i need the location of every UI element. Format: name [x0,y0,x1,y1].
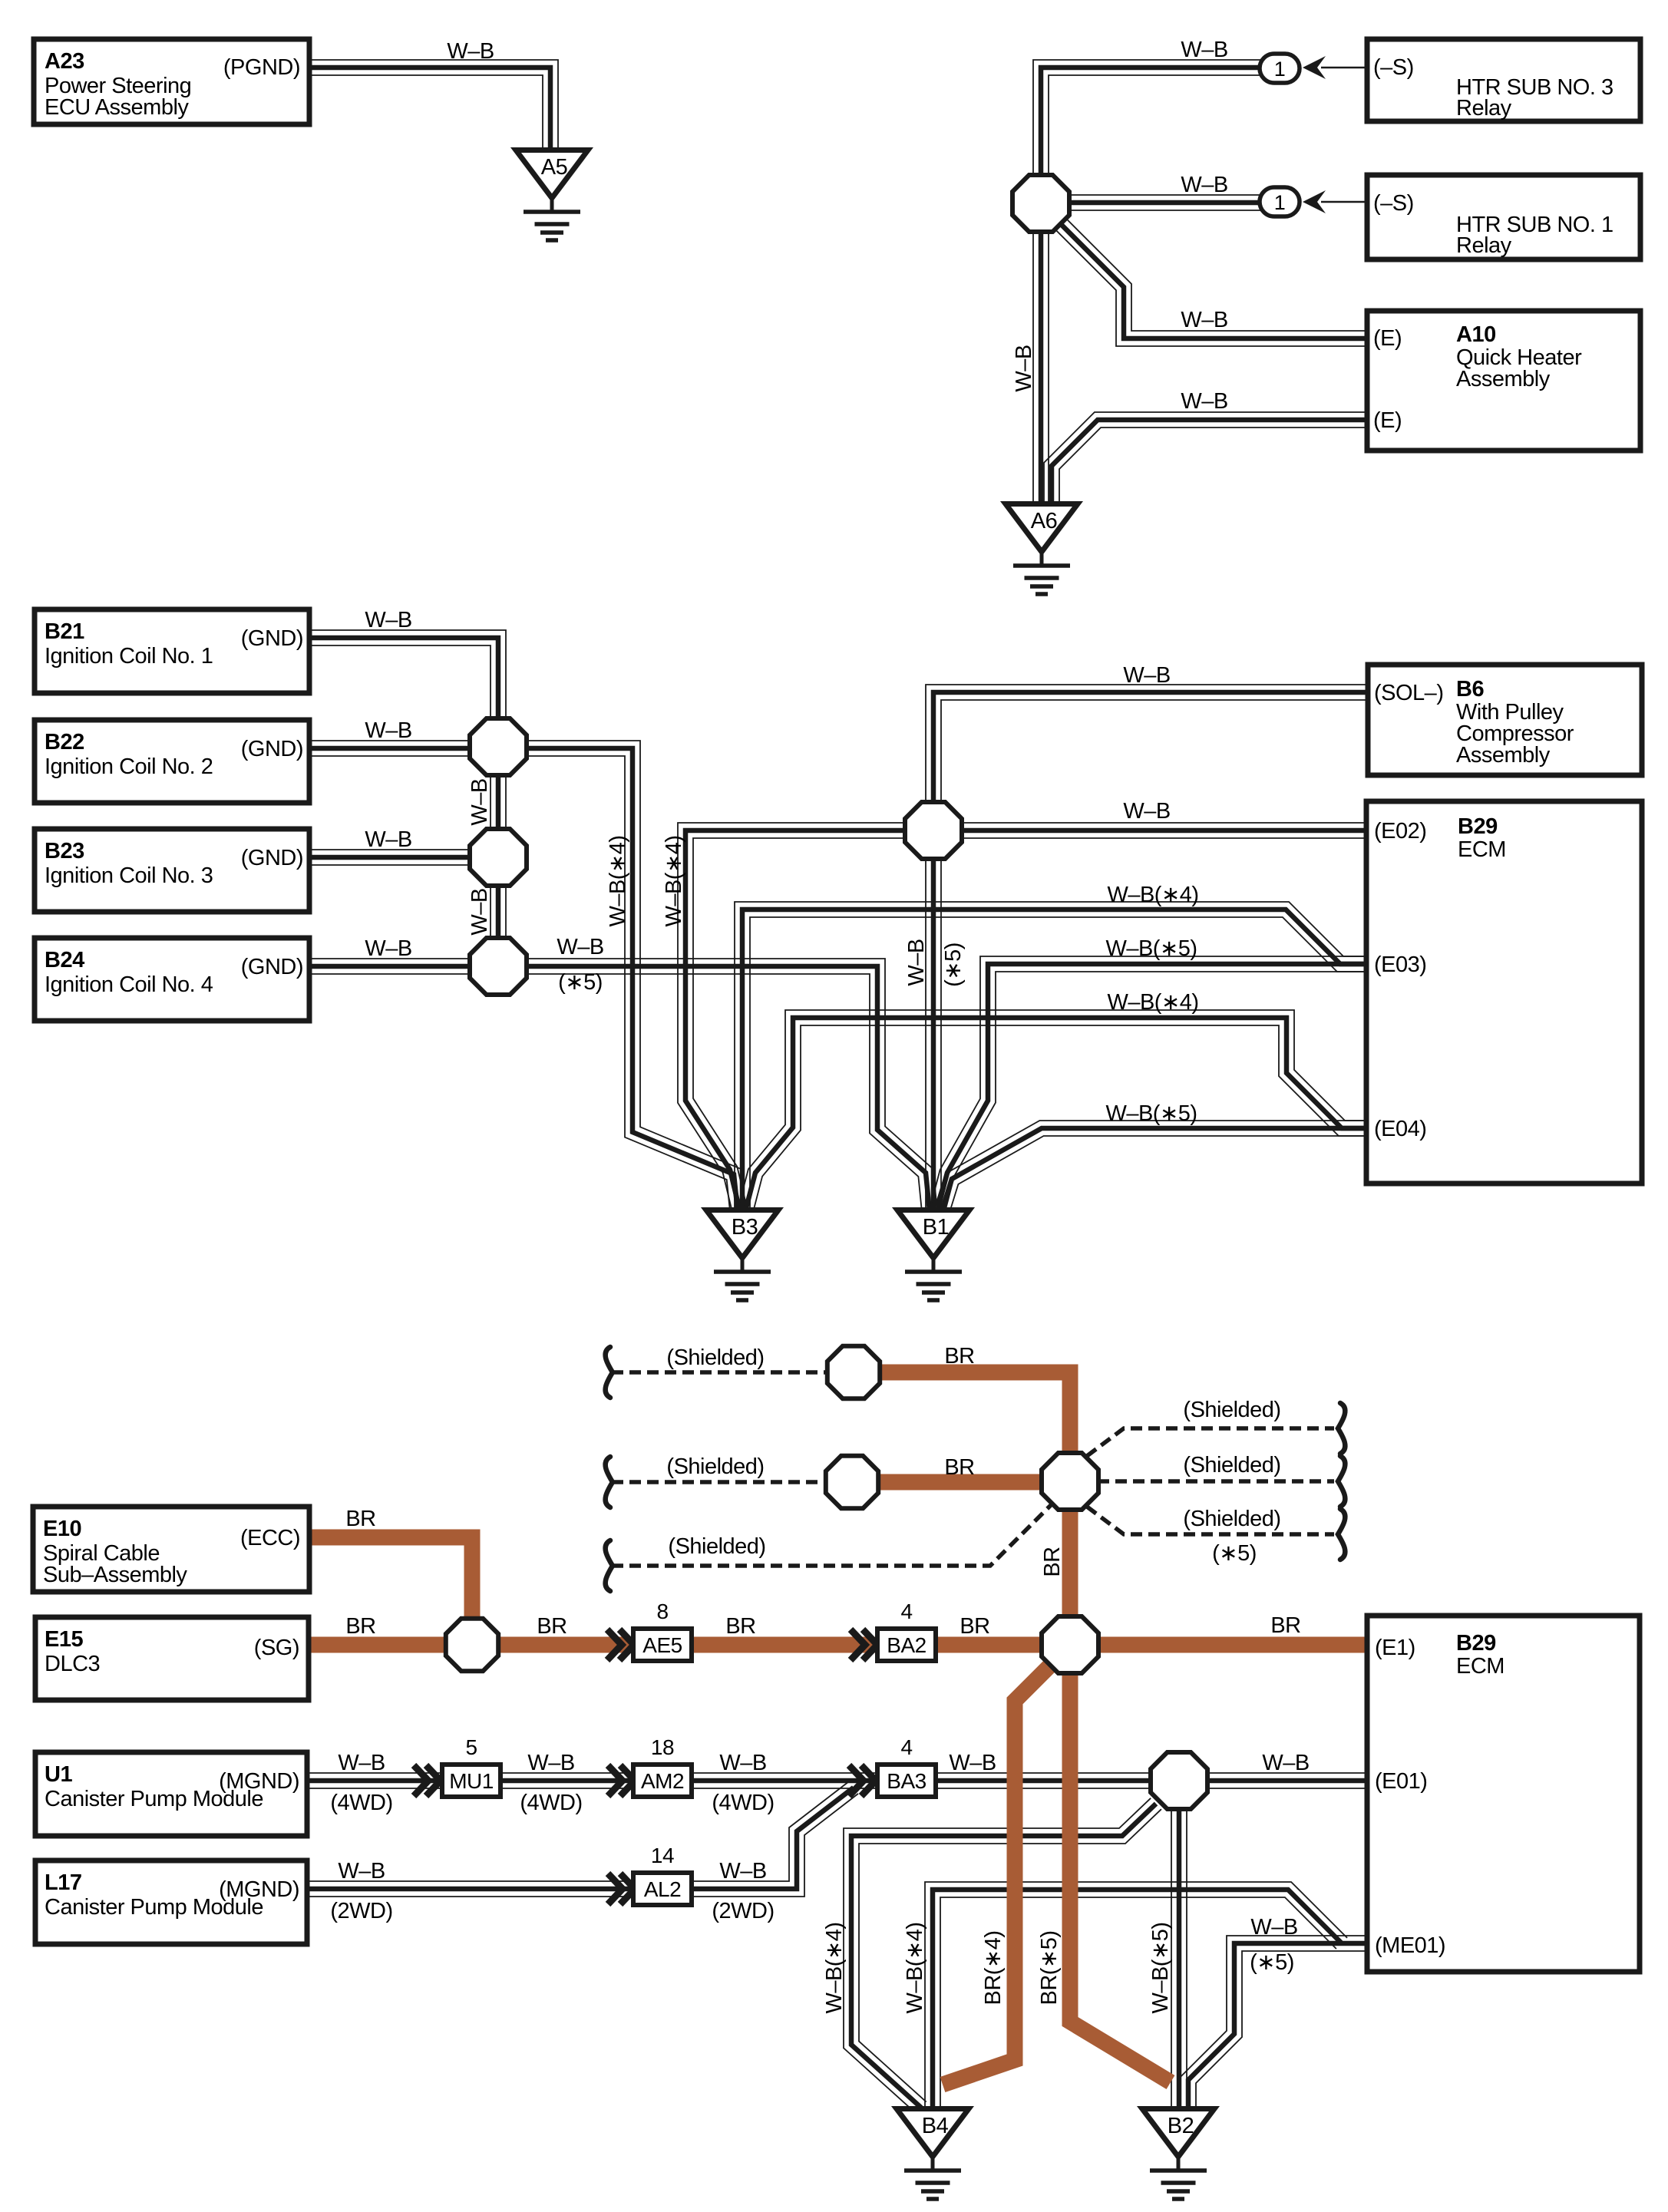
component HTR SUB NO.1 Relay [1367,175,1640,259]
wire W-B U1 MGND to junction J5 via MU1 AM2 BA3 [307,1773,1151,1788]
svg-text:W–B(∗5): W–B(∗5) [1105,1101,1197,1126]
wire W-B junction to A10 terminal E upper [1053,216,1370,346]
label BR row1 [944,1344,974,1368]
connector arrow HTR SUB NO.1 [1303,190,1367,213]
wire BR shield junction S1 to trunk [881,1372,1070,1454]
wire W-B B22 GND to junction J1 [309,741,473,756]
svg-text:W–B: W–B [365,827,411,852]
svg-text:(E): (E) [1373,408,1402,433]
junction octagon S1 shielded [827,1346,880,1398]
svg-text:W–B: W–B [1181,308,1227,332]
wire W-B B21 GND to junction J1 [309,630,506,721]
wire W-B(*5) ground B1 to ECM E03 [930,956,1370,1213]
svg-text:W–B: W–B [1181,173,1227,197]
junction octagon J1 [470,718,527,775]
svg-text:BR(∗5): BR(∗5) [1037,1930,1062,2005]
svg-text:(4WD): (4WD) [712,1791,774,1815]
svg-text:Sub–Assembly: Sub–Assembly [43,1563,187,1587]
label W-B AL2 wire [719,1859,766,1884]
svg-text:B24: B24 [45,948,84,972]
component B6 With Pulley Compressor Assembly [1368,665,1642,775]
connector chevron to BA2 [851,1629,877,1660]
wire BR shield junction S2 to junction J8 [879,1474,1044,1491]
wire W-B junction J2 to junction J3 [490,884,506,939]
svg-text:Canister Pump Module: Canister Pump Module [45,1895,263,1920]
component E10 Spiral Cable Sub-Assembly [33,1507,309,1592]
label BR post-J6 wire [537,1614,566,1639]
svg-text:BR: BR [725,1614,755,1639]
svg-text:5: 5 [465,1735,477,1759]
svg-text:Assembly: Assembly [1456,367,1551,391]
svg-text:(4WD): (4WD) [520,1791,582,1815]
svg-text:B29: B29 [1456,1631,1496,1656]
svg-text:W–B: W–B [719,1751,766,1775]
svg-text:A23: A23 [45,49,84,74]
label W-B relay3 wire [1181,38,1227,62]
svg-text:(Shielded): (Shielded) [1183,1507,1280,1531]
label (2WD) L17 wire [330,1899,392,1923]
shield brace left row 2 [606,1457,613,1507]
svg-text:(Shielded): (Shielded) [668,1534,765,1559]
svg-text:8: 8 [656,1600,668,1623]
svg-text:W–B: W–B [1250,1915,1297,1940]
svg-text:ECU Assembly: ECU Assembly [45,95,189,120]
ground B2 [1142,2109,1214,2200]
label W-B(*4) E04 wire [1107,990,1198,1015]
svg-text:W–B: W–B [949,1751,996,1775]
wire W-B junction J4 to ground B1 [926,857,941,1211]
svg-text:B4: B4 [922,2114,949,2138]
wire W-B(*4) junction J1 to ground B3 [524,741,745,1212]
component A23 Power Steering ECU Assembly [34,39,309,124]
svg-text:BR: BR [960,1614,989,1639]
svg-text:AL2: AL2 [644,1877,681,1901]
ground A5 [516,150,588,241]
svg-text:W–B: W–B [365,936,411,961]
svg-text:(–S): (–S) [1373,55,1414,80]
component B21 Ignition Coil No.1 [35,609,309,693]
junction octagon S2 shielded [826,1456,878,1508]
wire W-B B23 GND to junction J2 [309,850,473,865]
svg-text:A5: A5 [541,155,567,180]
svg-text:MU1: MU1 [449,1769,494,1793]
svg-text:B3: B3 [732,1215,758,1240]
svg-text:W–B: W–B [338,1751,385,1775]
svg-text:BA2: BA2 [887,1633,926,1657]
svg-text:(–S): (–S) [1373,191,1414,216]
svg-text:(E03): (E03) [1374,952,1426,977]
svg-text:(∗5): (∗5) [558,970,603,995]
svg-text:W–B: W–B [467,888,492,935]
wire W-B L17 MGND via AL2 merging at BA3 [307,1781,858,1897]
wire W-B A23 PGND to ground A5 [309,60,558,150]
svg-text:Ignition Coil No. 3: Ignition Coil No. 3 [45,863,213,888]
label W-B B23 wire [365,827,411,852]
connector MU1 pin 5 [442,1735,500,1797]
wire W-B B24 GND to junction J3 [309,959,473,974]
svg-text:L17: L17 [45,1870,81,1895]
label W-B A10 upper wire [1181,308,1227,332]
wire W-B(*4) ground B3 to ECM E03 [735,902,1370,1211]
label (4WD) U1 wire [330,1791,392,1815]
svg-text:W–B(∗4): W–B(∗4) [606,835,630,926]
svg-text:(E01): (E01) [1375,1769,1427,1794]
svg-text:U1: U1 [45,1762,72,1787]
connector pin 1 HTR SUB NO.3 [1260,54,1300,83]
label W-B(*5) E04 wire [1105,1101,1197,1126]
svg-text:14: 14 [651,1844,674,1867]
label (Shielded) rowC right [1183,1507,1280,1531]
wire W-B junction J5 to ECM E01 [1207,1773,1370,1788]
wire BR(*5) junction J7 to ground B2 [1070,1671,1171,2082]
svg-text:(∗5): (∗5) [1250,1950,1294,1975]
svg-text:W–B: W–B [527,1751,574,1775]
label BR(*5) vertical [1037,1930,1062,2005]
junction octagon J5 [1151,1752,1207,1809]
svg-text:W–B(∗5): W–B(∗5) [1105,936,1197,961]
component B29 ECM upper [1366,801,1642,1184]
svg-text:W–B: W–B [1123,799,1170,824]
svg-text:W–B(∗4): W–B(∗4) [903,1922,927,2013]
ground A6 [1006,504,1078,595]
label W-B(*4) vertical x824 [606,835,630,926]
junction octagon J8 shield trunk [1042,1453,1098,1510]
label (2WD) AL2 wire [712,1899,774,1923]
svg-text:W–B: W–B [1181,38,1227,62]
label W-B A23 wire [447,39,494,64]
svg-text:Ignition Coil No. 4: Ignition Coil No. 4 [45,972,213,997]
svg-text:W–B(∗4): W–B(∗4) [1107,990,1198,1015]
label W-B L17 wire [338,1859,385,1884]
label (*5) ME01 wire [1250,1950,1294,1975]
svg-text:(4WD): (4WD) [330,1791,392,1815]
svg-text:(GND): (GND) [241,626,303,651]
wire W-B(*4) junction J4 to ground B3 [678,823,907,1213]
svg-text:BR: BR [345,1614,375,1639]
svg-text:Ignition Coil No. 1: Ignition Coil No. 1 [45,644,213,669]
svg-text:(PGND): (PGND) [223,55,300,80]
svg-text:(SOL–): (SOL–) [1374,681,1443,705]
label W-B(*5) vertical x1536 [1148,1922,1173,2013]
label W-B B21 wire [365,608,411,632]
junction octagon J6 [446,1619,498,1671]
svg-text:BR: BR [1270,1613,1300,1638]
junction octagon J2 [470,829,527,886]
label W-B vertical A6 trunk [1012,345,1036,391]
junction octagon J3 [470,938,527,995]
svg-text:B23: B23 [45,839,84,863]
label W-B(*4) vertical x1215 [903,1922,927,2013]
svg-text:E15: E15 [45,1627,83,1652]
ground B3 [706,1210,778,1301]
wire W-B(*5) ground B1 to ECM E04 [934,1121,1370,1213]
wire W-B junction down to ground A6 [1033,230,1049,505]
component L17 Canister Pump Module [35,1860,307,1944]
wire BR junction J8 to junction J7 [1062,1508,1078,1619]
svg-text:W–B(∗5): W–B(∗5) [1148,1922,1173,2013]
connector AM2 pin 18 [633,1735,692,1797]
svg-text:(Shielded): (Shielded) [1183,1398,1280,1422]
connector BA3 pin 4 [877,1735,936,1797]
connector chevron to MU1 [414,1765,441,1796]
connector chevron to BA3 [849,1765,876,1796]
svg-text:Assembly: Assembly [1456,743,1551,768]
wire shielded dashed right row A [1087,1428,1334,1456]
wire BR junction J6 to ECM E1 via AE5 BA2 J7 [497,1637,1370,1653]
svg-text:W–B(∗4): W–B(∗4) [1107,883,1198,907]
wire W-B junction J4 to B6 SOL- [926,685,1370,804]
label BR row2 [944,1455,974,1480]
label W-B A10 lower wire [1181,389,1227,414]
label (Shielded) row3 left [668,1534,765,1559]
svg-text:W–B(∗4): W–B(∗4) [662,835,686,926]
label W-B E01 wire [1262,1751,1309,1775]
connector chevron to AL2 [608,1874,635,1904]
svg-text:(GND): (GND) [241,737,303,761]
svg-text:(2WD): (2WD) [330,1899,392,1923]
svg-text:ECM: ECM [1458,837,1506,862]
shield brace right row C [1338,1509,1345,1560]
svg-text:(SG): (SG) [254,1636,299,1660]
svg-text:(E1): (E1) [1375,1636,1415,1660]
svg-text:W–B: W–B [904,939,929,985]
label W-B U1 wire [338,1751,385,1775]
wire W-B(*4) ME01 branch to ground B4 [925,1882,1347,2108]
svg-text:W–B: W–B [1123,663,1170,688]
wire BR E10 ECC to junction J6 [309,1537,472,1619]
label (*5) J3 right wire [558,970,603,995]
component B23 Ignition Coil No.3 [35,829,309,912]
svg-text:(GND): (GND) [241,846,303,870]
component A10 Quick Heater Assembly [1367,311,1640,451]
svg-text:B22: B22 [45,730,84,754]
wire W-B junction J4 to ECM E02 [960,823,1370,838]
shield brace left row 3 [606,1540,613,1591]
connector chevron to AM2 [608,1765,635,1796]
wire W-B(*5) ECM ME01 to ground B2 [1181,1936,1370,2108]
label W-B E02 wire [1123,799,1170,824]
svg-text:Relay: Relay [1456,233,1512,258]
ground B1 [897,1210,969,1301]
svg-text:W–B: W–B [1012,345,1036,391]
svg-text:A6: A6 [1031,509,1057,533]
label W-B B24 wire [365,936,411,961]
label W-B B6 wire [1123,663,1170,688]
svg-text:(Shielded): (Shielded) [1183,1453,1280,1477]
label W-B AM2-BA3 wire [719,1751,766,1775]
svg-text:(E04): (E04) [1374,1117,1426,1141]
label W-B BA3-J5 wire [949,1751,996,1775]
label W-B(*4) vertical x1109 [822,1922,847,2013]
wire W-B A10 terminal E lower to ground A6 [1044,412,1370,505]
label W-B vertical J1-J2 [467,778,492,825]
connector BA2 pin 4 [877,1600,936,1661]
junction octagon J4 [905,802,962,859]
svg-text:B6: B6 [1456,677,1484,702]
svg-text:W–B: W–B [1262,1751,1309,1775]
label W-B MU1-AM2 wire [527,1751,574,1775]
wire W-B(*5) junction J3 to ground B1 [524,959,937,1212]
svg-text:Ignition Coil No. 2: Ignition Coil No. 2 [45,754,213,779]
label (Shielded) row2 left [666,1454,764,1479]
shield brace right row A [1338,1403,1345,1454]
wire W-B(*4) junction J5 to ground B4 [844,1798,1161,2114]
svg-text:1: 1 [1274,191,1286,214]
wire W-B junction to HTR SUB NO.1 relay [1069,195,1263,210]
svg-text:18: 18 [651,1735,674,1759]
label (Shielded) rowB right [1183,1453,1280,1477]
svg-text:(∗5): (∗5) [1212,1541,1257,1566]
wire W-B(*5) junction J5 to ground B2 [1171,1808,1187,2108]
label W-B(*4) E03 wire [1107,883,1198,907]
svg-text:W–B: W–B [365,608,411,632]
wire W-B junction J1 to junction J2 [490,774,506,831]
svg-text:BR: BR [944,1455,974,1480]
svg-text:Canister Pump Module: Canister Pump Module [45,1787,263,1811]
junction octagon A-section [1012,175,1069,232]
svg-text:ECM: ECM [1456,1654,1505,1679]
component B29 ECM lower [1367,1616,1640,1972]
label BR SG wire [345,1614,375,1639]
connector arrow HTR SUB NO.3 [1303,56,1367,79]
connector pin 1 HTR SUB NO.1 [1260,187,1300,216]
label BR ECC wire [345,1507,375,1531]
component E15 DLC3 [35,1617,309,1700]
label (4WD) AM2-BA3 wire [712,1791,774,1815]
svg-text:(2WD): (2WD) [712,1899,774,1923]
svg-text:B1: B1 [923,1215,949,1240]
svg-text:A10: A10 [1456,322,1496,347]
svg-text:W–B: W–B [447,39,494,64]
svg-text:(Shielded): (Shielded) [666,1454,764,1479]
wire shielded dashed row 2 [612,1480,825,1484]
wire W-B(*4) ground B3 to ECM E04 [738,1010,1370,1213]
label BR post-AE5 wire [725,1614,755,1639]
label (Shielded) rowA right [1183,1398,1280,1422]
svg-text:(ECC): (ECC) [240,1526,300,1550]
svg-text:W–B: W–B [1181,389,1227,414]
label W-B J3 right wire [557,935,603,959]
label W-B vertical J2-J3 [467,888,492,935]
svg-text:(∗5): (∗5) [941,943,966,987]
label W-B relay1 wire [1181,173,1227,197]
label (*5) vertical x1216 [941,943,966,987]
label BR post-BA2 wire [960,1614,989,1639]
svg-text:AE5: AE5 [642,1633,682,1657]
label W-B(*5) E03 wire [1105,936,1197,961]
svg-text:BR: BR [345,1507,375,1531]
svg-text:W–B: W–B [338,1859,385,1884]
label W-B vertical x1216 [904,939,929,985]
svg-text:(Shielded): (Shielded) [666,1345,764,1370]
svg-text:BR: BR [1040,1547,1065,1576]
label BR E1 wire [1270,1613,1300,1638]
svg-text:(ME01): (ME01) [1375,1933,1445,1958]
svg-text:(E02): (E02) [1374,819,1426,844]
svg-text:B2: B2 [1168,2114,1194,2138]
label (*5) rowC right [1212,1541,1257,1566]
svg-text:Relay: Relay [1456,96,1512,121]
label (4WD) MU1-AM2 wire [520,1791,582,1815]
svg-text:W–B: W–B [467,778,492,825]
label W-B(*4) vertical x893 [662,835,686,926]
svg-text:W–B(∗4): W–B(∗4) [822,1922,847,2013]
shield brace right row B [1338,1456,1345,1507]
wire BR E15 SG to junction J6 [309,1637,447,1653]
wire BR(*4) junction J7 to ground B4 [943,1664,1052,2085]
svg-text:4: 4 [900,1600,912,1623]
label W-B ME01 wire [1250,1915,1297,1940]
label (Shielded) row1 left [666,1345,764,1370]
label BR(*4) vertical [981,1930,1006,2005]
component B22 Ignition Coil No.2 [35,720,309,803]
svg-text:B21: B21 [45,619,84,644]
label BR vertical trunk [1040,1547,1065,1576]
wire shielded dashed right row B [1098,1479,1334,1484]
svg-text:AM2: AM2 [641,1769,684,1793]
wire shielded dashed row 1 [612,1370,827,1375]
svg-text:4: 4 [900,1735,912,1759]
component HTR SUB NO.3 Relay [1367,39,1640,121]
wire shielded dashed right row C [1087,1507,1334,1534]
svg-text:E10: E10 [43,1517,81,1541]
svg-text:W–B: W–B [365,718,411,743]
component U1 Canister Pump Module [35,1752,307,1836]
svg-text:BA3: BA3 [887,1769,926,1793]
svg-text:1: 1 [1274,58,1286,81]
shield brace left row 1 [606,1347,613,1398]
svg-text:(GND): (GND) [241,955,303,979]
svg-text:W–B: W–B [719,1859,766,1884]
connector chevron to AE5 [607,1629,634,1660]
connector AL2 pin 14 [633,1844,692,1905]
wire shielded dashed row 3 [612,1503,1053,1566]
ground B4 [897,2109,969,2200]
svg-text:BR: BR [944,1344,974,1368]
connector AE5 pin 8 [633,1600,692,1661]
wire W-B junction to HTR SUB NO.3 relay [1033,60,1263,178]
component B24 Ignition Coil No.4 [35,938,309,1021]
svg-text:W–B: W–B [557,935,603,959]
label W-B B22 wire [365,718,411,743]
junction octagon J7 [1042,1616,1098,1673]
svg-text:DLC3: DLC3 [45,1652,100,1676]
svg-text:B29: B29 [1458,814,1498,839]
svg-text:BR(∗4): BR(∗4) [981,1930,1006,2005]
svg-text:BR: BR [537,1614,566,1639]
svg-text:(E): (E) [1373,326,1402,351]
